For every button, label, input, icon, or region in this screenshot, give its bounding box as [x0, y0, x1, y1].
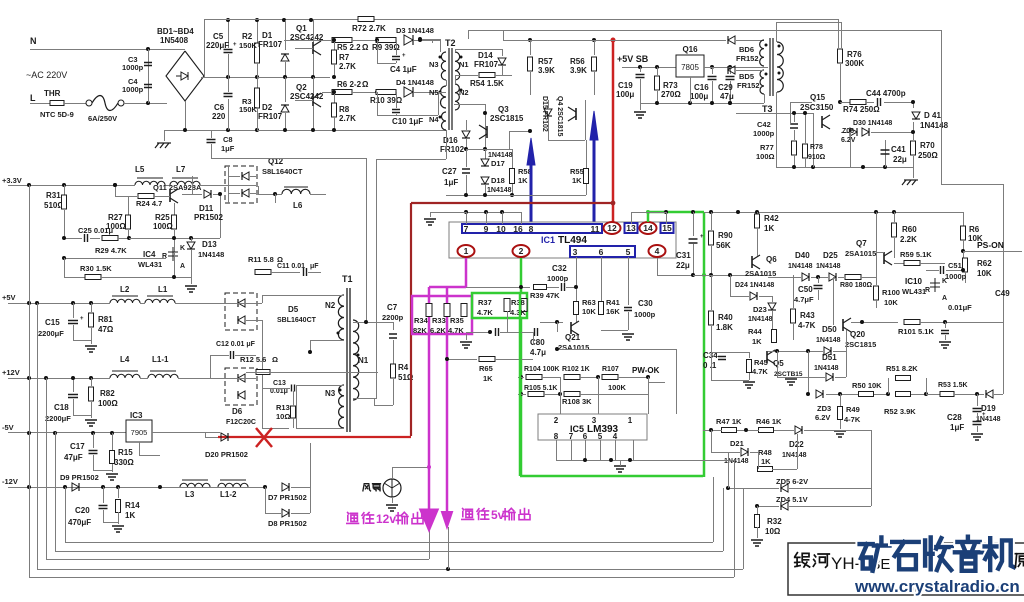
- svg-text:5: 5: [598, 432, 603, 441]
- svg-text:R70: R70: [920, 141, 935, 150]
- svg-text:-12V: -12V: [2, 477, 18, 486]
- svg-text:D24 1N4148: D24 1N4148: [735, 282, 774, 289]
- svg-text:C16: C16: [694, 83, 709, 92]
- svg-text:2.7K: 2.7K: [339, 62, 356, 71]
- svg-text:C6: C6: [214, 103, 225, 112]
- svg-text:8: 8: [529, 224, 534, 234]
- svg-text:R73: R73: [663, 81, 678, 90]
- svg-text:R74 250Ω: R74 250Ω: [843, 105, 880, 114]
- svg-text:10: 10: [496, 224, 506, 234]
- svg-text:1K: 1K: [125, 511, 135, 520]
- svg-text:+5V: +5V: [2, 293, 16, 302]
- svg-text:T3: T3: [762, 104, 773, 114]
- svg-text:R108 3K: R108 3K: [562, 397, 592, 406]
- svg-text:L3: L3: [185, 490, 195, 499]
- svg-text:R63: R63: [582, 298, 596, 307]
- svg-text:R77: R77: [760, 143, 774, 152]
- svg-text:C51: C51: [948, 261, 962, 270]
- svg-text:22μ: 22μ: [893, 155, 907, 164]
- svg-text:C20: C20: [75, 506, 90, 515]
- svg-text:C42: C42: [757, 120, 771, 129]
- svg-text:C7: C7: [387, 303, 398, 312]
- svg-text:Z06: Z06: [842, 128, 854, 135]
- svg-text:C31: C31: [676, 251, 691, 260]
- svg-text:R41: R41: [606, 298, 620, 307]
- svg-text:4.7μ: 4.7μ: [530, 348, 546, 357]
- svg-text:2.7K: 2.7K: [339, 114, 356, 123]
- svg-text:-5V: -5V: [2, 423, 14, 432]
- svg-text:100μ: 100μ: [616, 90, 634, 99]
- svg-text:C15: C15: [45, 318, 60, 327]
- svg-text:D20 PR1502: D20 PR1502: [205, 450, 248, 459]
- svg-text:R5 2.2: R5 2.2: [337, 43, 361, 52]
- svg-text:D18: D18: [491, 176, 505, 185]
- svg-text:82K: 82K: [413, 326, 427, 335]
- svg-text:N4: N4: [429, 115, 439, 124]
- svg-text:4.7K: 4.7K: [448, 326, 464, 335]
- svg-text:N5: N5: [429, 88, 439, 97]
- svg-text:N1: N1: [459, 60, 469, 69]
- svg-text:D16: D16: [443, 136, 458, 145]
- svg-text:PW-OK: PW-OK: [632, 366, 660, 375]
- svg-text:R81: R81: [98, 315, 113, 324]
- svg-text:T1: T1: [342, 274, 353, 284]
- svg-text:D7 PR1502: D7 PR1502: [268, 493, 307, 502]
- svg-text:220: 220: [212, 112, 226, 121]
- svg-text:9: 9: [484, 224, 489, 234]
- svg-text:+: +: [233, 42, 237, 48]
- svg-text:+3.3V: +3.3V: [2, 176, 22, 185]
- svg-text:R34: R34: [414, 316, 429, 325]
- svg-text:R27: R27: [108, 213, 123, 222]
- svg-text:10K: 10K: [977, 269, 992, 278]
- svg-text:D6: D6: [232, 407, 243, 416]
- svg-text:R14: R14: [125, 501, 140, 510]
- svg-text:R44: R44: [748, 327, 763, 336]
- svg-text:R11 5.8: R11 5.8: [248, 255, 274, 264]
- svg-text:C50: C50: [798, 285, 813, 294]
- svg-text:R90: R90: [718, 231, 733, 240]
- svg-text:IC1: IC1: [541, 235, 555, 245]
- svg-text:22μ: 22μ: [676, 261, 690, 270]
- svg-text:5: 5: [626, 247, 631, 257]
- svg-text:R52 3.9K: R52 3.9K: [884, 407, 916, 416]
- svg-text:R6: R6: [969, 225, 980, 234]
- svg-text:4: 4: [655, 246, 660, 256]
- svg-text:R100: R100: [882, 288, 900, 297]
- svg-text:Q1: Q1: [296, 24, 307, 33]
- svg-text:R45: R45: [754, 358, 768, 367]
- svg-text:+: +: [402, 53, 406, 59]
- svg-text:R: R: [162, 253, 167, 260]
- svg-text:6: 6: [583, 432, 588, 441]
- svg-text:C32: C32: [552, 264, 567, 273]
- svg-text:N3: N3: [429, 60, 439, 69]
- svg-text:L: L: [30, 93, 36, 103]
- svg-text:Q11 2SA928A: Q11 2SA928A: [153, 183, 202, 192]
- svg-text:L4: L4: [120, 355, 130, 364]
- svg-text:BD6: BD6: [739, 45, 754, 54]
- svg-text:8: 8: [554, 432, 559, 441]
- svg-text:R105 5.1K: R105 5.1K: [524, 385, 557, 392]
- svg-text:1K: 1K: [761, 457, 771, 466]
- svg-text:13: 13: [626, 223, 636, 233]
- svg-text:C4 1μF: C4 1μF: [390, 65, 417, 74]
- svg-text:56K: 56K: [716, 241, 731, 250]
- svg-text:R51 8.2K: R51 8.2K: [886, 364, 918, 373]
- svg-text:1N4148: 1N4148: [788, 263, 813, 270]
- svg-text:K: K: [180, 245, 185, 252]
- svg-text:C30: C30: [638, 299, 653, 308]
- svg-text:2SC3150: 2SC3150: [800, 103, 834, 112]
- svg-text:1K: 1K: [483, 374, 493, 383]
- svg-text:R31: R31: [46, 191, 61, 200]
- svg-text:N1: N1: [358, 356, 369, 365]
- svg-text:4.7K: 4.7K: [477, 308, 493, 317]
- svg-text:4-7K: 4-7K: [798, 321, 816, 330]
- svg-text:0.01μ: 0.01μ: [270, 388, 288, 395]
- svg-text:D5: D5: [288, 305, 299, 314]
- svg-text:1μF: 1μF: [950, 423, 964, 432]
- svg-text:D2: D2: [262, 103, 273, 112]
- svg-text:L5: L5: [135, 165, 145, 174]
- svg-text:D13: D13: [202, 240, 217, 249]
- svg-text:R101 5.1K: R101 5.1K: [898, 327, 934, 336]
- svg-text:Q15: Q15: [810, 93, 826, 102]
- svg-text:4.7K: 4.7K: [752, 367, 768, 376]
- svg-text:IC10: IC10: [905, 277, 922, 286]
- svg-text:150K: 150K: [239, 41, 258, 50]
- svg-text:+: +: [982, 412, 986, 418]
- svg-text:R56: R56: [570, 57, 585, 66]
- svg-text:C11 0.01: C11 0.01: [277, 263, 305, 270]
- svg-text:1N4148: 1N4148: [198, 250, 224, 259]
- svg-text:D8 PR1502: D8 PR1502: [268, 519, 307, 528]
- svg-text:6.2V: 6.2V: [841, 137, 856, 144]
- svg-text:L7: L7: [176, 165, 186, 174]
- svg-text:R13: R13: [276, 403, 290, 412]
- svg-text:R38: R38: [511, 298, 525, 307]
- svg-text:+12V: +12V: [2, 368, 20, 377]
- svg-text:C10 1μF: C10 1μF: [392, 117, 423, 126]
- svg-text:R24 4.7: R24 4.7: [136, 199, 162, 208]
- svg-text:1N4148: 1N4148: [920, 121, 949, 130]
- svg-text:15: 15: [662, 223, 672, 233]
- svg-text:C44 4700p: C44 4700p: [866, 89, 906, 98]
- svg-text:R107: R107: [602, 366, 619, 373]
- svg-text:10Ω: 10Ω: [276, 412, 290, 421]
- svg-text:2SC4242: 2SC4242: [290, 33, 324, 42]
- svg-text:FR107: FR107: [474, 60, 499, 69]
- svg-text:C12 0.01 μF: C12 0.01 μF: [216, 341, 256, 348]
- svg-text:R30 1.5K: R30 1.5K: [80, 264, 112, 273]
- svg-text:R2: R2: [242, 32, 253, 41]
- svg-text:Q6: Q6: [766, 255, 777, 264]
- svg-text:1000p: 1000p: [547, 274, 569, 283]
- svg-text:470μF: 470μF: [68, 518, 91, 527]
- svg-text:47μ: 47μ: [720, 92, 734, 101]
- svg-text:Q2: Q2: [296, 83, 307, 92]
- svg-text:D25: D25: [823, 251, 838, 260]
- svg-text:R46 1K: R46 1K: [756, 417, 782, 426]
- svg-text:F12C20C: F12C20C: [226, 419, 256, 426]
- svg-text:μF: μF: [310, 263, 319, 270]
- svg-text:A: A: [180, 263, 185, 270]
- svg-text:3.9K: 3.9K: [570, 66, 587, 75]
- svg-text:FR152: FR152: [737, 81, 760, 90]
- svg-text:1N4148: 1N4148: [816, 263, 841, 270]
- svg-text:NTC 5D-9: NTC 5D-9: [40, 110, 74, 119]
- svg-text:D9 PR1502: D9 PR1502: [60, 473, 99, 482]
- svg-text:R29 4.7K: R29 4.7K: [95, 246, 127, 255]
- svg-text:R102 1K: R102 1K: [562, 366, 590, 373]
- svg-text:C27: C27: [442, 167, 457, 176]
- svg-text:S8L1640CT: S8L1640CT: [262, 167, 303, 176]
- svg-text:C18: C18: [54, 403, 69, 412]
- svg-text:12: 12: [607, 223, 617, 233]
- svg-text:C29: C29: [718, 83, 733, 92]
- svg-text:100μ: 100μ: [690, 92, 708, 101]
- svg-text:47Ω: 47Ω: [98, 325, 114, 334]
- svg-text:1000p: 1000p: [753, 129, 775, 138]
- svg-text:+: +: [700, 234, 704, 240]
- svg-text:150K: 150K: [239, 105, 258, 114]
- svg-text:1N4148: 1N4148: [724, 458, 749, 465]
- svg-text:R65: R65: [479, 364, 493, 373]
- svg-text:D50: D50: [822, 325, 837, 334]
- svg-text:100Ω: 100Ω: [153, 222, 173, 231]
- svg-text:Ω: Ω: [362, 80, 369, 89]
- svg-text:2SC1815: 2SC1815: [845, 340, 876, 349]
- svg-text:R48: R48: [758, 448, 772, 457]
- svg-text:6.2K: 6.2K: [430, 326, 446, 335]
- svg-text:1N4148: 1N4148: [782, 452, 807, 459]
- svg-text:270Ω: 270Ω: [661, 90, 681, 99]
- svg-text:BD5: BD5: [739, 72, 754, 81]
- svg-text:Q20: Q20: [850, 330, 866, 339]
- svg-text:FR102: FR102: [440, 145, 465, 154]
- svg-text:7905: 7905: [131, 428, 148, 437]
- svg-text:N: N: [30, 36, 37, 46]
- svg-text:R72 2.7K: R72 2.7K: [352, 24, 386, 33]
- svg-text:R57: R57: [538, 57, 553, 66]
- svg-text:R43: R43: [800, 311, 815, 320]
- svg-text:FR107: FR107: [258, 112, 283, 121]
- svg-text:R6 2-2: R6 2-2: [337, 80, 362, 89]
- svg-text:R33: R33: [432, 316, 446, 325]
- svg-text:R54 1.5K: R54 1.5K: [470, 79, 504, 88]
- svg-text:L1: L1: [158, 285, 168, 294]
- svg-text:L2: L2: [120, 285, 130, 294]
- svg-text:R37: R37: [478, 298, 492, 307]
- svg-text:2SA1015: 2SA1015: [745, 269, 776, 278]
- svg-text:D 41: D 41: [924, 111, 941, 120]
- svg-text:300K: 300K: [845, 59, 864, 68]
- svg-text:N2: N2: [325, 301, 336, 310]
- svg-text:FR152: FR152: [736, 54, 759, 63]
- svg-text:PR1502: PR1502: [194, 213, 223, 222]
- svg-text:R47 1K: R47 1K: [716, 417, 742, 426]
- svg-text:2: 2: [519, 246, 524, 256]
- svg-text:C25 0.01μ: C25 0.01μ: [78, 226, 113, 235]
- svg-text:4-7K: 4-7K: [844, 415, 861, 424]
- svg-text:D40: D40: [795, 251, 810, 260]
- svg-text:C8: C8: [223, 135, 233, 144]
- svg-text:R78: R78: [810, 144, 823, 151]
- svg-text:D21: D21: [730, 439, 744, 448]
- svg-text:D23: D23: [753, 305, 767, 314]
- svg-text:11: 11: [591, 224, 600, 234]
- svg-text:L1-2: L1-2: [220, 490, 237, 499]
- svg-text:R4: R4: [398, 363, 409, 372]
- svg-text:10Ω: 10Ω: [765, 527, 781, 536]
- svg-text:250Ω: 250Ω: [918, 151, 938, 160]
- svg-text:0 .1: 0 .1: [703, 361, 717, 370]
- svg-text:1μF: 1μF: [444, 178, 458, 187]
- svg-text:R62: R62: [977, 259, 992, 268]
- svg-text:FR107: FR107: [258, 40, 283, 49]
- svg-text:10K: 10K: [884, 298, 898, 307]
- svg-text:14: 14: [643, 223, 653, 233]
- svg-text:D3 1N4148: D3 1N4148: [396, 26, 434, 35]
- svg-text:1.8K: 1.8K: [716, 323, 733, 332]
- svg-text:16K: 16K: [606, 307, 620, 316]
- svg-text:R: R: [925, 287, 930, 294]
- svg-text:100Ω: 100Ω: [98, 399, 118, 408]
- svg-text:~AC 220V: ~AC 220V: [26, 70, 67, 80]
- svg-text:R10 39Ω: R10 39Ω: [370, 96, 403, 105]
- svg-text:R55: R55: [570, 167, 584, 176]
- svg-text:N3: N3: [325, 389, 336, 398]
- svg-text:2200μF: 2200μF: [45, 414, 71, 423]
- svg-text:Q3: Q3: [498, 105, 509, 114]
- svg-text:1N4148: 1N4148: [816, 337, 841, 344]
- svg-text:2SA1015: 2SA1015: [558, 343, 589, 352]
- svg-text:BD1~BD4: BD1~BD4: [157, 27, 194, 36]
- svg-text:1K: 1K: [518, 176, 528, 185]
- svg-text:6: 6: [599, 247, 604, 257]
- svg-text:D30 1N4148: D30 1N4148: [853, 120, 892, 127]
- svg-text:1N4148: 1N4148: [814, 365, 839, 372]
- svg-text:D22: D22: [789, 440, 804, 449]
- svg-text:D1: D1: [262, 31, 273, 40]
- svg-text:R53 1.5K: R53 1.5K: [938, 382, 968, 389]
- svg-text:330Ω: 330Ω: [114, 458, 134, 467]
- svg-text:R40: R40: [718, 313, 733, 322]
- svg-text:2SA1015: 2SA1015: [845, 249, 876, 258]
- svg-text:5v: 5v: [491, 508, 505, 522]
- svg-text:R7: R7: [339, 53, 350, 62]
- svg-text:C17: C17: [70, 442, 85, 451]
- svg-text:2SCTB15: 2SCTB15: [774, 371, 803, 378]
- svg-text:1000p: 1000p: [634, 310, 656, 319]
- svg-text:2: 2: [554, 416, 559, 425]
- svg-text:Ω: Ω: [272, 355, 278, 364]
- svg-text:1K: 1K: [764, 224, 774, 233]
- svg-text:+5V SB: +5V SB: [617, 54, 649, 64]
- svg-text:100K: 100K: [608, 383, 627, 392]
- svg-text:Q16: Q16: [682, 45, 698, 54]
- svg-text:WL431: WL431: [902, 287, 926, 296]
- svg-text:6.2V: 6.2V: [815, 413, 830, 422]
- svg-text:910Ω: 910Ω: [808, 154, 826, 161]
- svg-text:R76: R76: [847, 50, 862, 59]
- svg-text:R25: R25: [155, 213, 170, 222]
- svg-text:R12 5.6: R12 5.6: [240, 355, 266, 364]
- svg-text:100Ω: 100Ω: [756, 152, 775, 161]
- svg-text:PS-ON: PS-ON: [977, 240, 1004, 250]
- svg-text:1N4148: 1N4148: [487, 187, 512, 194]
- svg-text:7805: 7805: [681, 63, 699, 72]
- svg-text:C13: C13: [273, 380, 286, 387]
- svg-text:D11: D11: [199, 204, 214, 213]
- svg-text:16: 16: [513, 224, 523, 234]
- svg-text:Q4 2SC1815: Q4 2SC1815: [556, 96, 563, 137]
- svg-text:1N5408: 1N5408: [160, 36, 189, 45]
- svg-text:1μF: 1μF: [221, 144, 235, 153]
- svg-text:R82: R82: [100, 389, 115, 398]
- svg-text:C80: C80: [530, 338, 545, 347]
- svg-text:2SC1815: 2SC1815: [490, 114, 524, 123]
- svg-text:+: +: [80, 316, 84, 322]
- svg-text:C49: C49: [995, 289, 1010, 298]
- svg-text:3: 3: [573, 247, 578, 257]
- svg-text:R35: R35: [450, 316, 464, 325]
- svg-text:1N4148: 1N4148: [748, 316, 773, 323]
- svg-text:1000p: 1000p: [122, 85, 144, 94]
- svg-text:4.3K: 4.3K: [510, 308, 526, 317]
- svg-text:7: 7: [569, 432, 574, 441]
- svg-text:N2: N2: [459, 88, 469, 97]
- svg-text:12v: 12v: [376, 512, 396, 526]
- svg-text:D4 1N4148: D4 1N4148: [396, 78, 434, 87]
- svg-text:3.9K: 3.9K: [538, 66, 555, 75]
- svg-text:C41: C41: [891, 145, 906, 154]
- svg-text:6A/250V: 6A/250V: [88, 114, 117, 123]
- svg-text:C5: C5: [213, 32, 224, 41]
- svg-text:Q7: Q7: [856, 239, 867, 248]
- svg-text:0.01μF: 0.01μF: [948, 303, 972, 312]
- svg-text:SBL1640CT: SBL1640CT: [277, 317, 317, 324]
- svg-text:1: 1: [628, 416, 633, 425]
- svg-text:47μF: 47μF: [64, 453, 83, 462]
- svg-text:R32: R32: [767, 517, 782, 526]
- svg-text:D14: D14: [478, 51, 493, 60]
- svg-text:R104 100K: R104 100K: [524, 366, 559, 373]
- svg-text:TL494: TL494: [558, 235, 587, 246]
- svg-text:R59 5.1K: R59 5.1K: [900, 250, 932, 259]
- svg-text:R39 47K: R39 47K: [530, 291, 560, 300]
- svg-text:WL431: WL431: [138, 260, 162, 269]
- svg-text:www.crystalradio.cn: www.crystalradio.cn: [854, 577, 1020, 596]
- svg-text:R42: R42: [764, 214, 779, 223]
- svg-text:R50 10K: R50 10K: [852, 381, 882, 390]
- svg-text:D17: D17: [491, 159, 505, 168]
- svg-text:L1-1: L1-1: [152, 355, 169, 364]
- svg-text:1K: 1K: [572, 176, 582, 185]
- svg-text:2.2K: 2.2K: [900, 235, 917, 244]
- svg-text:R15: R15: [118, 448, 133, 457]
- svg-text:R8: R8: [339, 105, 350, 114]
- svg-text:1N4148: 1N4148: [488, 152, 513, 159]
- svg-text:R49: R49: [846, 405, 860, 414]
- svg-text:C19: C19: [618, 81, 633, 90]
- svg-text:1000p: 1000p: [945, 272, 967, 281]
- svg-text:A: A: [942, 295, 947, 302]
- svg-text:1000p: 1000p: [122, 63, 144, 72]
- svg-text:10K: 10K: [582, 307, 596, 316]
- svg-text:7: 7: [464, 224, 469, 234]
